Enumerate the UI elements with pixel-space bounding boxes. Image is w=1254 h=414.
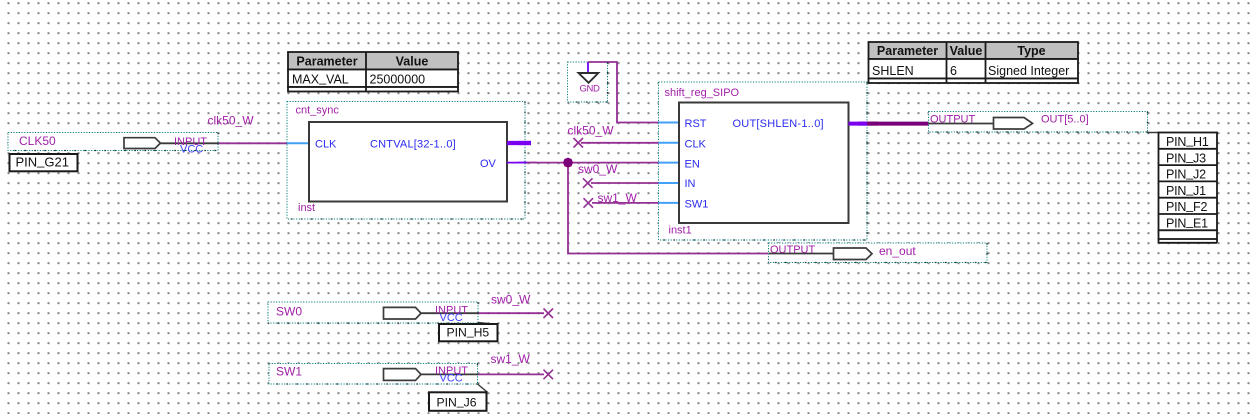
svg-text:6: 6 [950,64,957,78]
svg-text:Type: Type [1017,44,1045,58]
svg-text:PIN_F2: PIN_F2 [1166,198,1207,214]
svg-text:clk50_W: clk50_W [568,124,615,138]
svg-text:CLK50: CLK50 [19,134,56,148]
svg-text:MAX_VAL: MAX_VAL [292,71,349,87]
svg-text:SW1: SW1 [685,198,709,210]
svg-text:cnt_sync: cnt_sync [296,105,340,117]
svg-text:Value: Value [396,55,429,69]
svg-text:sw0_W: sw0_W [578,162,618,176]
svg-text:PIN_J3: PIN_J3 [1166,150,1206,166]
svg-text:CLK: CLK [685,138,707,150]
svg-text:Signed Integer: Signed Integer [988,64,1069,78]
svg-text:PIN_J2: PIN_J2 [1166,166,1206,182]
svg-text:GND: GND [580,84,600,95]
svg-text:SW1: SW1 [276,365,302,379]
svg-text:SW0: SW0 [276,305,302,319]
svg-text:Parameter: Parameter [877,44,938,58]
svg-text:SHLEN: SHLEN [872,64,914,78]
svg-text:RST: RST [685,118,707,130]
svg-text:IN: IN [685,178,696,190]
svg-text:OUTPUT: OUTPUT [770,244,816,256]
svg-text:en_out: en_out [879,244,916,258]
svg-text:PIN_J6: PIN_J6 [437,394,477,410]
svg-text:sw1_W: sw1_W [491,352,531,366]
svg-text:clk50_W: clk50_W [208,114,255,128]
svg-text:CNTVAL[32-1..0]: CNTVAL[32-1..0] [370,139,456,151]
svg-text:VCC: VCC [180,144,203,156]
svg-text:inst: inst [298,202,315,214]
svg-text:PIN_E1: PIN_E1 [1166,215,1208,231]
svg-text:EN: EN [685,158,700,170]
svg-text:PIN_H1: PIN_H1 [1166,133,1209,149]
svg-text:OV: OV [480,158,497,170]
svg-text:VCC: VCC [440,312,463,324]
svg-text:PIN_J1: PIN_J1 [1166,182,1206,198]
svg-text:VCC: VCC [440,373,463,385]
svg-text:OUT[SHLEN-1..0]: OUT[SHLEN-1..0] [733,118,824,130]
svg-text:25000000: 25000000 [370,73,426,87]
svg-text:shift_reg_SIPO: shift_reg_SIPO [665,87,740,99]
svg-text:OUT[5..0]: OUT[5..0] [1041,114,1089,126]
svg-text:sw0_W: sw0_W [491,293,531,307]
svg-text:OUTPUT: OUTPUT [930,114,976,126]
svg-text:Parameter: Parameter [296,55,357,69]
svg-text:Value: Value [950,44,983,58]
svg-text:PIN_H5: PIN_H5 [447,324,490,340]
svg-text:PIN_G21: PIN_G21 [16,153,69,170]
svg-text:sw1_W: sw1_W [598,191,638,205]
svg-text:CLK: CLK [315,139,337,151]
svg-text:inst1: inst1 [669,225,692,237]
